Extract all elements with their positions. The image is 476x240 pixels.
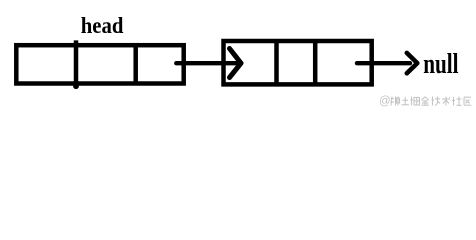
node 2 divider 2	[313, 41, 318, 84]
watermark	[379, 96, 471, 108]
node 1 box	[16, 45, 183, 83]
svg-text:head: head	[81, 12, 124, 38]
svg-text:@: @	[379, 96, 391, 108]
null pointer arrow shaft	[357, 61, 410, 65]
pointer arrow node1 to node2 head	[230, 49, 242, 78]
null pointer arrow head	[407, 53, 418, 73]
node 2 box	[224, 41, 372, 84]
node 2 divider 1	[274, 41, 279, 84]
svg-text:null: null	[423, 48, 458, 80]
node 1 divider 1	[73, 40, 79, 89]
pointer arrow node1 to node2 shaft	[176, 61, 236, 65]
node 1 divider 2	[133, 45, 138, 83]
